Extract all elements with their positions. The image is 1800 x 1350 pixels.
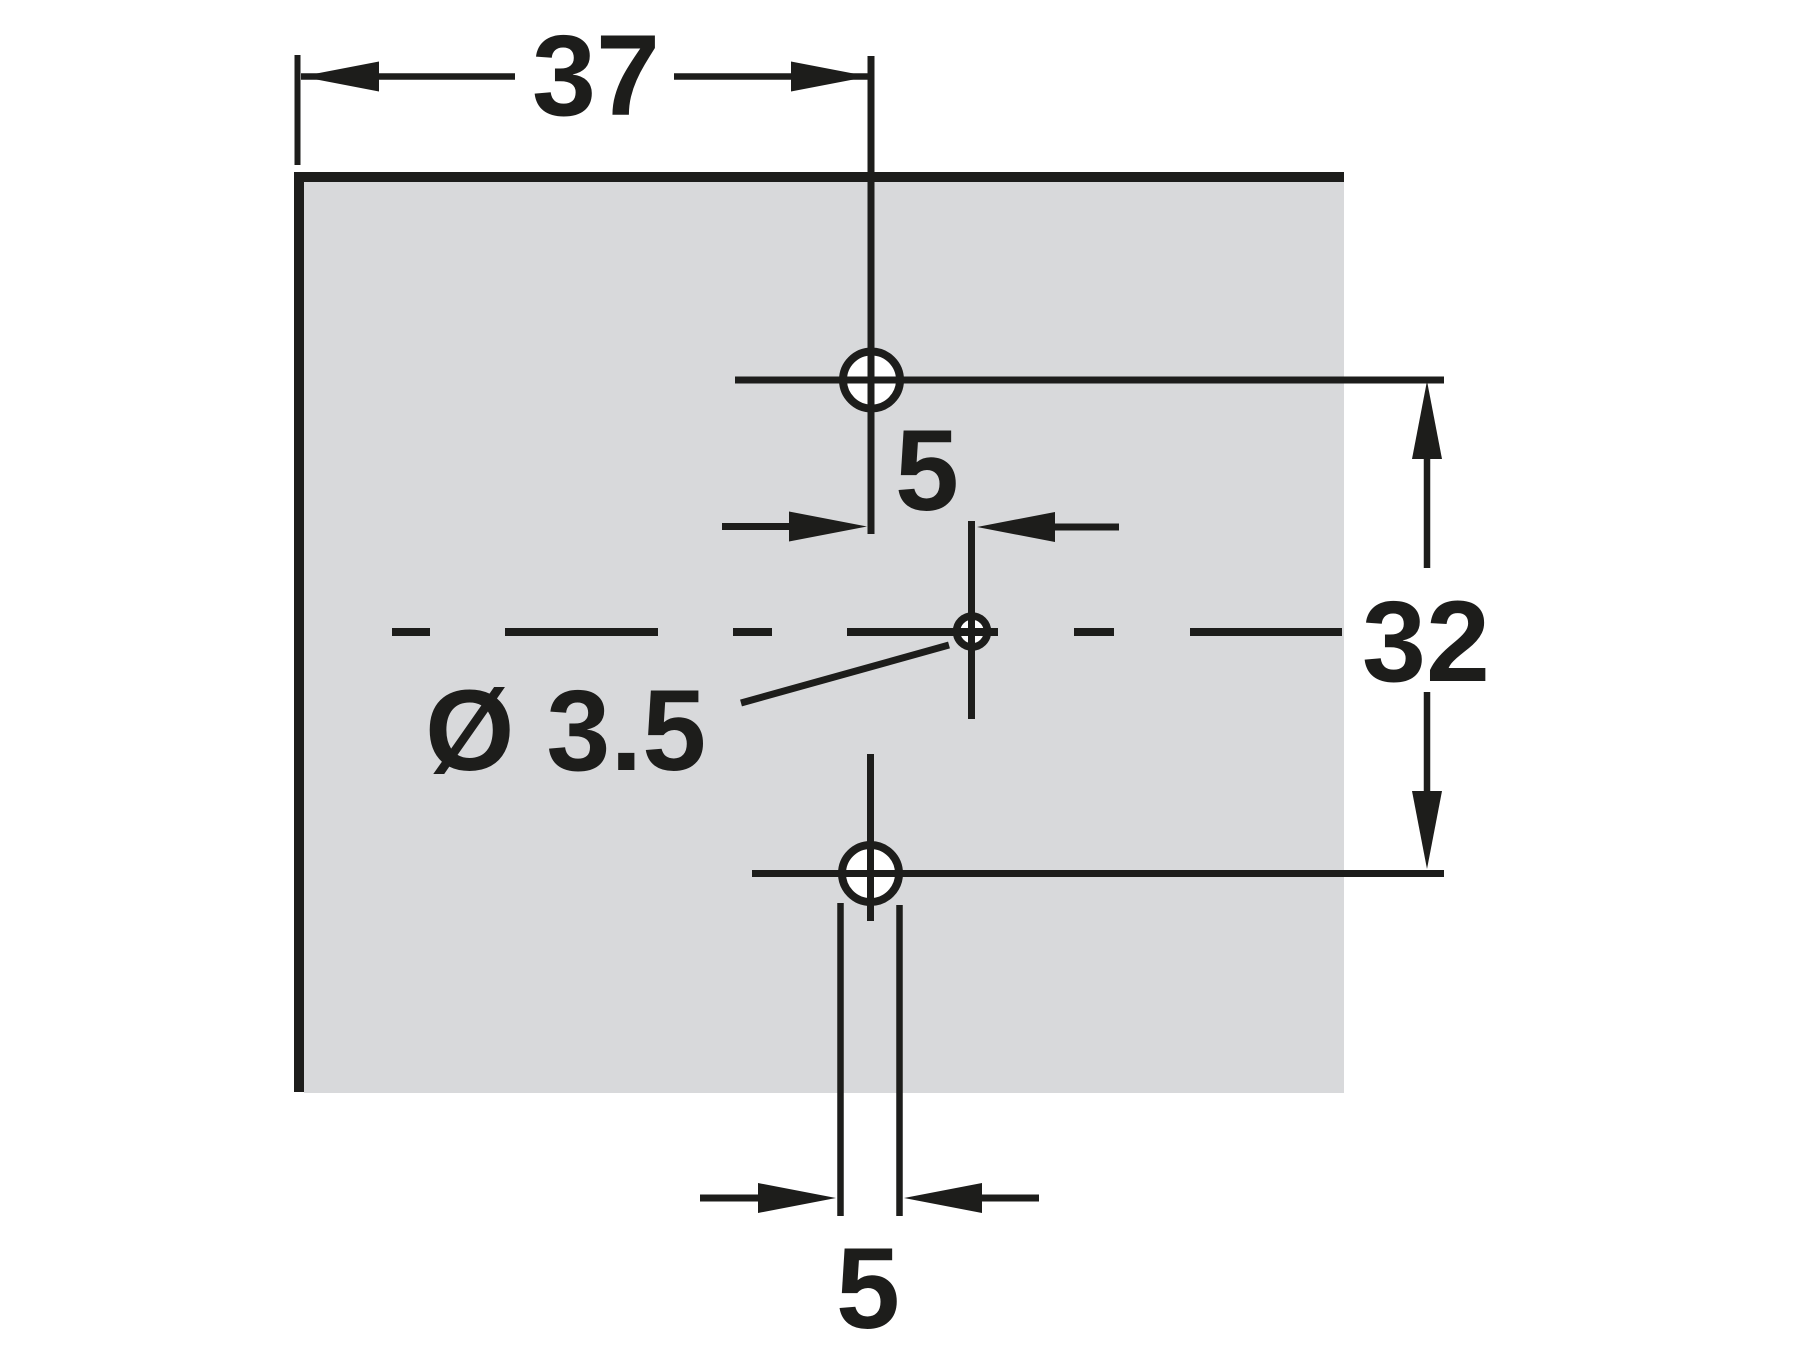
dim 37 dimension line left segment bbox=[301, 73, 515, 80]
top hole vertical centerline bbox=[868, 56, 875, 534]
dashed horizontal centerline dash 6 bbox=[1190, 628, 1342, 636]
dim 5 upper tail line left bbox=[722, 523, 795, 530]
svg-text:5: 5 bbox=[836, 1225, 900, 1350]
dim 37 arrowhead right bbox=[791, 62, 869, 92]
dim 32 arrowhead down bbox=[1412, 791, 1442, 869]
center hole vertical extension line bbox=[968, 521, 975, 719]
dim 32 arrowhead up bbox=[1412, 381, 1442, 459]
dim 32 dimension line lower segment bbox=[1424, 692, 1431, 820]
top hole horizontal centerline / dim 32 top extension bbox=[735, 377, 1444, 384]
panel top edge (thick black) bbox=[294, 172, 1344, 182]
bottom hole (screw hole) bbox=[842, 845, 899, 902]
center pilot hole bbox=[957, 616, 988, 647]
dim 5 upper arrowhead pointing left bbox=[977, 512, 1055, 542]
dim 5 lower arrowhead pointing left bbox=[904, 1183, 982, 1213]
dim 5 upper arrowhead pointing right bbox=[789, 512, 867, 542]
svg-text:32: 32 bbox=[1362, 578, 1490, 706]
svg-text:5: 5 bbox=[895, 407, 959, 535]
dashed horizontal centerline dash 2 bbox=[505, 628, 658, 636]
dim 37 dimension line right segment bbox=[674, 73, 869, 80]
dim 5 lower arrowhead pointing right bbox=[758, 1183, 836, 1213]
leader line to center hole bbox=[741, 645, 949, 703]
dim 5 upper tail line right bbox=[1049, 524, 1119, 531]
dim 37 extension line left bbox=[295, 55, 301, 165]
panel left edge (thick black) bbox=[294, 172, 304, 1092]
dim 37 arrowhead left bbox=[301, 62, 379, 92]
dim 5 lower tail line left bbox=[700, 1195, 764, 1202]
dim 5 lower extension line left bbox=[837, 903, 844, 1216]
svg-text:37: 37 bbox=[532, 12, 660, 140]
dashed horizontal centerline dash 4 bbox=[847, 628, 998, 636]
dashed horizontal centerline dash 3 bbox=[733, 628, 772, 636]
svg-text:Ø 3.5: Ø 3.5 bbox=[425, 667, 706, 795]
bottom hole vertical centerline bbox=[867, 754, 874, 921]
dim 32 dimension line upper segment bbox=[1424, 430, 1431, 568]
top hole (screw hole) bbox=[843, 352, 900, 409]
dim 5 lower tail line right bbox=[976, 1195, 1039, 1202]
panel face (gray board) bbox=[304, 182, 1344, 1093]
bottom hole horizontal centerline / dim 32 bottom extension bbox=[752, 870, 1444, 877]
dim 5 lower extension line right bbox=[896, 905, 903, 1216]
dashed horizontal centerline dash 5 bbox=[1074, 628, 1114, 636]
dashed horizontal centerline dash 1 bbox=[392, 628, 430, 636]
